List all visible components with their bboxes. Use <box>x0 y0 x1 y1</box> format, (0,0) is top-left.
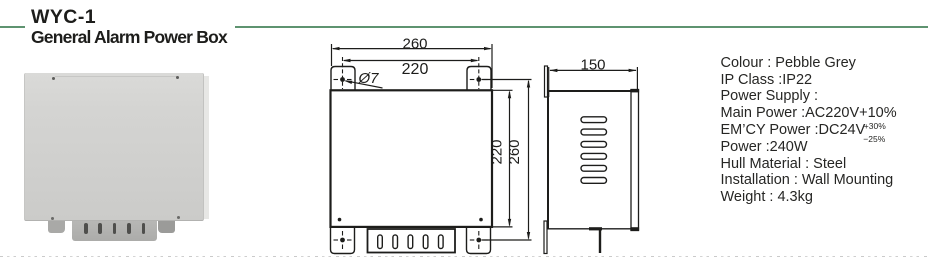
svg-text:260: 260 <box>402 36 427 53</box>
svg-text:260: 260 <box>506 139 523 164</box>
svg-text:220: 220 <box>402 61 429 78</box>
svg-text:150: 150 <box>580 56 605 73</box>
svg-text:220: 220 <box>489 139 506 164</box>
svg-text:Ø7: Ø7 <box>358 70 380 87</box>
